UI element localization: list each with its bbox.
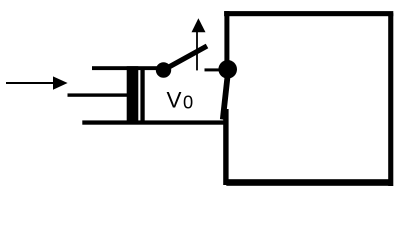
switch actuation arrow xyxy=(192,18,206,70)
electrode plate (thin bar) xyxy=(140,67,144,123)
switch S blade xyxy=(164,46,208,70)
electrode plate (thick bar) xyxy=(127,66,139,123)
input arrow xyxy=(6,76,68,89)
wire: bottom conductor xyxy=(82,120,226,124)
load box: top edge xyxy=(224,11,393,16)
wire: stub to junction node xyxy=(205,68,229,71)
load box: right edge xyxy=(388,13,393,186)
svg-text:V: V xyxy=(167,87,182,112)
load box: upper left edge xyxy=(224,11,229,69)
svg-text:0: 0 xyxy=(183,91,193,112)
load box: slanted left segment below node xyxy=(223,69,229,119)
wire: middle conductor xyxy=(68,93,129,96)
switch S pivot node xyxy=(156,62,171,77)
node: junction dot xyxy=(218,60,237,79)
load box: bottom edge xyxy=(226,179,391,186)
load box: lower left edge xyxy=(223,109,228,185)
wire: top conductor xyxy=(92,66,163,70)
